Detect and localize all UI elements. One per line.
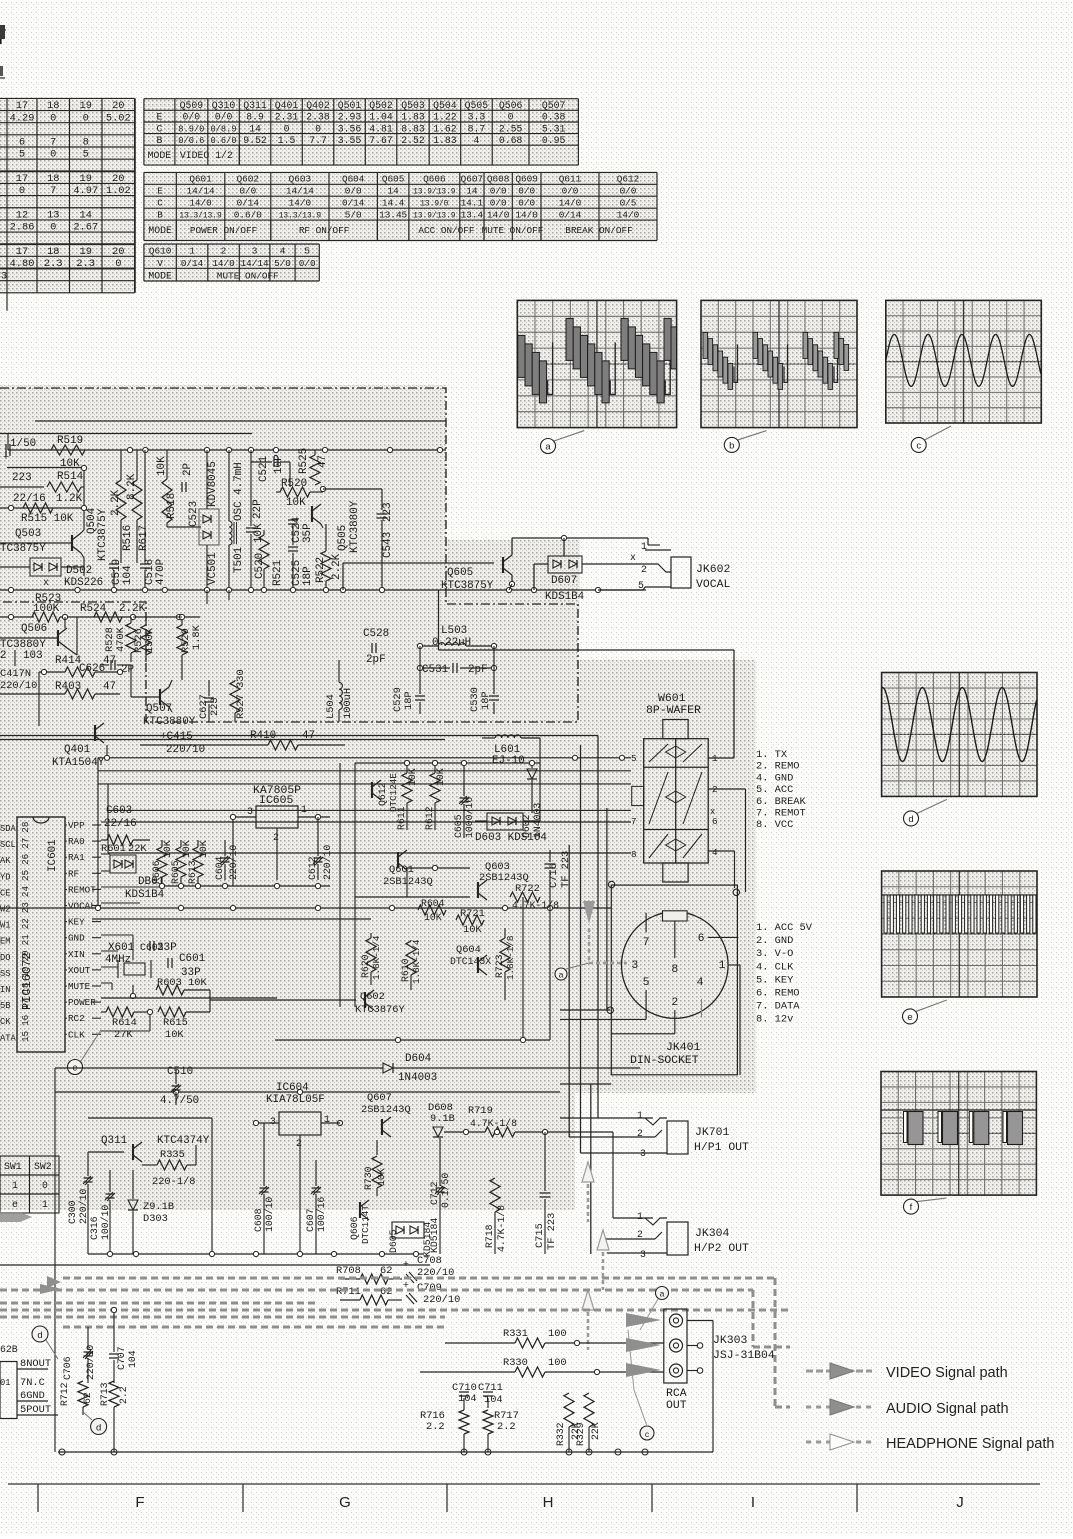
- svg-text:R713: R713: [99, 1382, 110, 1406]
- svg-text:22: 22: [20, 918, 31, 929]
- svg-text:R730: R730: [363, 1166, 374, 1190]
- wire Q605 collector to D607: [511, 538, 513, 544]
- svg-text:7: 7: [50, 137, 56, 149]
- svg-text:4.7K-1/8: 4.7K-1/8: [470, 1118, 517, 1129]
- svg-text:104: 104: [127, 1350, 138, 1368]
- svg-text:Q602: Q602: [360, 991, 385, 1003]
- svg-text:35P: 35P: [302, 523, 314, 543]
- RCA wires: [687, 1320, 713, 1322]
- svg-text:DTC143X: DTC143X: [450, 956, 491, 967]
- wire h1092 box line: [55, 1091, 560, 1093]
- svg-text:2.52: 2.52: [401, 135, 425, 146]
- svg-text:8: 8: [671, 963, 678, 976]
- svg-text:47: 47: [317, 455, 329, 468]
- svg-text:62: 62: [380, 1265, 392, 1277]
- resistor R514: [0, 486, 44, 488]
- capacitor C1/50 (page edge): [5, 444, 7, 456]
- svg-text:R711: R711: [336, 1286, 361, 1298]
- wire R520 to C543: [323, 488, 382, 490]
- svg-text:100: 100: [548, 1357, 567, 1369]
- signal path arrow into DIN: [583, 901, 595, 924]
- svg-text:IC601: IC601: [47, 839, 59, 872]
- svg-text:7N.C: 7N.C: [20, 1377, 45, 1389]
- svg-text:TC3875Y: TC3875Y: [0, 543, 46, 555]
- svg-text:13.9/13.9: 13.9/13.9: [413, 188, 456, 197]
- IC IC601 PIC16C72: [17, 817, 65, 1052]
- transistor Q603 2SB1243Q: [477, 882, 479, 898]
- resistor R515: [23, 503, 53, 513]
- svg-text:x: x: [43, 577, 49, 588]
- svg-text:0/0: 0/0: [490, 198, 507, 209]
- svg-text:R604: R604: [421, 898, 445, 909]
- wire harness h739: [0, 739, 445, 741]
- wire R523 junction riser: [64, 617, 66, 628]
- svg-text:R332: R332: [555, 1422, 566, 1446]
- svg-text:E: E: [157, 186, 163, 197]
- svg-text:C708: C708: [417, 1255, 442, 1267]
- capacitor C520 22P: [246, 527, 256, 529]
- svg-text:5/0: 5/0: [345, 210, 362, 221]
- svg-text:Q601: Q601: [389, 864, 414, 876]
- inductor L503 0.22uH: [438, 643, 465, 646]
- svg-text:C604: C604: [214, 856, 225, 880]
- svg-text:1: 1: [42, 1199, 48, 1210]
- svg-text:2: 2: [641, 564, 647, 575]
- svg-text:DTC124E: DTC124E: [388, 773, 399, 812]
- svg-text:I: I: [751, 1494, 755, 1511]
- svg-text:Q507: Q507: [542, 100, 566, 111]
- svg-text:IC605: IC605: [259, 794, 293, 807]
- transistor Q507: [159, 689, 161, 705]
- svg-text:10K: 10K: [60, 458, 80, 470]
- svg-text:R603 10K: R603 10K: [157, 977, 208, 989]
- svg-text:14/14: 14/14: [187, 186, 215, 197]
- svg-text:14: 14: [80, 209, 92, 221]
- inductor T501 OSC 4.7mH: [229, 521, 232, 545]
- transistor Q503: [71, 535, 73, 551]
- scope label circle (a): [541, 431, 585, 454]
- svg-text:17: 17: [16, 173, 28, 185]
- svg-text:VIDEO Signal path: VIDEO Signal path: [886, 1365, 1008, 1381]
- diode D608 9.1B: [433, 1127, 443, 1137]
- svg-text:d: d: [96, 1423, 101, 1434]
- svg-text:SDA: SDA: [0, 824, 16, 834]
- capacitor C519 104: [109, 563, 119, 565]
- svg-text:R615: R615: [163, 1017, 188, 1029]
- label circle a (din): [555, 968, 567, 980]
- svg-text:Q505: Q505: [465, 100, 489, 111]
- svg-text:Q612: Q612: [617, 174, 639, 185]
- scope label circle (c): [911, 426, 951, 452]
- svg-text:Q503: Q503: [15, 528, 41, 540]
- transistor Q604 DTC143X: [477, 957, 479, 973]
- svg-text:2pF: 2pF: [468, 664, 488, 676]
- svg-text:2.2K: 2.2K: [110, 489, 122, 516]
- jack JK304 H/P2 OUT: [667, 1222, 688, 1255]
- resistor R614 27K: [106, 1007, 134, 1017]
- svg-text:20: 20: [112, 246, 124, 258]
- wire Q311 top net: [88, 1117, 212, 1119]
- svg-text:Q401: Q401: [64, 744, 91, 756]
- resistor R528 470K: [126, 623, 136, 653]
- svg-text:8.9: 8.9: [246, 112, 264, 123]
- RCA jack JK303: [664, 1309, 687, 1383]
- svg-text:AK: AK: [0, 856, 11, 866]
- svg-text:150K: 150K: [144, 627, 156, 653]
- svg-text:KTC3880Y: KTC3880Y: [143, 716, 196, 728]
- svg-text:R718: R718: [484, 1224, 495, 1248]
- svg-text:17: 17: [16, 100, 28, 112]
- svg-text:R613: R613: [187, 860, 198, 884]
- svg-text:2.2K: 2.2K: [331, 553, 343, 580]
- diode pair D603 KDS164: [487, 813, 523, 830]
- resistor R615 10K: [158, 1007, 186, 1017]
- svg-text:220/10: 220/10: [78, 1189, 89, 1224]
- svg-text:0.68: 0.68: [499, 135, 523, 146]
- RF shield dashed boundary: [0, 388, 578, 722]
- svg-text:Q311: Q311: [243, 100, 267, 111]
- svg-text:SS: SS: [0, 969, 10, 979]
- transistor Q506: [57, 630, 59, 646]
- svg-text:Q506: Q506: [21, 623, 47, 635]
- svg-text:62: 62: [380, 1286, 392, 1298]
- svg-text:10K: 10K: [253, 523, 265, 543]
- svg-text:6: 6: [19, 137, 25, 149]
- svg-text:14/14: 14/14: [286, 186, 314, 197]
- svg-text:f: f: [910, 1202, 913, 1213]
- svg-text:VOCAL: VOCAL: [696, 578, 730, 591]
- svg-text:100/10: 100/10: [100, 1205, 111, 1240]
- svg-text:KD5184: KD5184: [429, 1218, 440, 1253]
- svg-text:RA1: RA1: [68, 852, 85, 863]
- svg-text:T501: T501: [233, 546, 245, 573]
- svg-text:D303: D303: [143, 1213, 168, 1225]
- svg-text:C603: C603: [106, 805, 132, 817]
- svg-text:x: x: [630, 552, 636, 563]
- svg-text:0/14: 0/14: [559, 210, 582, 221]
- svg-text:RC2: RC2: [68, 1013, 85, 1024]
- video signal path rails: [23, 1276, 61, 1288]
- svg-text:14/0: 14/0: [515, 210, 538, 221]
- svg-text:KTC3880Y: KTC3880Y: [349, 500, 361, 553]
- svg-text:4.29: 4.29: [10, 112, 35, 124]
- svg-text:Q502: Q502: [369, 100, 393, 111]
- svg-text:1/50: 1/50: [10, 438, 36, 450]
- W601 key notch: [632, 786, 644, 805]
- svg-text:+: +: [403, 1259, 409, 1270]
- svg-text:KTC3875Y: KTC3875Y: [97, 508, 109, 561]
- svg-text:EJ-10: EJ-10: [492, 755, 525, 767]
- svg-text:YD: YD: [0, 872, 10, 882]
- svg-text:VPP: VPP: [68, 820, 85, 831]
- wire long rail h1265: [0, 1264, 430, 1266]
- svg-text:8. 12v: 8. 12v: [756, 1014, 793, 1026]
- capacitor C543 223: [377, 513, 388, 515]
- page corner specks: [0, 25, 5, 39]
- svg-text:470K: 470K: [115, 626, 127, 652]
- svg-text:22P: 22P: [252, 499, 264, 519]
- svg-text:0/14: 0/14: [342, 198, 365, 209]
- svg-text:1. TX: 1. TX: [756, 749, 788, 761]
- svg-text:17: 17: [20, 999, 31, 1010]
- svg-text:10K: 10K: [165, 1029, 184, 1041]
- capacitor C626 2P: [110, 660, 112, 670]
- svg-text:220/10: 220/10: [85, 1345, 96, 1380]
- svg-text:10K: 10K: [407, 768, 418, 786]
- svg-text:2.3: 2.3: [76, 258, 95, 270]
- svg-text:13.9/0: 13.9/0: [420, 200, 449, 209]
- svg-text:Q606: Q606: [423, 174, 446, 185]
- svg-text:C716: C716: [548, 863, 560, 888]
- transistor voltage table 2: [144, 172, 657, 240]
- capacitor C712 0.1/50: [436, 1187, 445, 1189]
- resistor R529 1.8K: [177, 625, 187, 655]
- svg-text:10K: 10K: [181, 840, 192, 858]
- svg-text:2: 2: [637, 1229, 643, 1240]
- svg-text:3.3: 3.3: [468, 112, 486, 123]
- diode pair D605 KD5184: [392, 1222, 424, 1238]
- svg-text:14: 14: [249, 123, 261, 134]
- svg-text:R516: R516: [122, 525, 134, 551]
- IC605 KA7805P: [256, 806, 298, 828]
- resistor R332 22K: [564, 1393, 574, 1427]
- wire h1000 segment: [210, 999, 356, 1001]
- resistor R620 1.8K-1/4: [366, 938, 376, 972]
- svg-text:VC501: VC501: [207, 552, 219, 585]
- DIN pin 8: [674, 921, 676, 958]
- svg-text:G: G: [339, 1494, 351, 1511]
- transistor Q602 KTC3876Y: [364, 992, 366, 1008]
- resistor R717 2.2: [483, 1410, 493, 1434]
- svg-text:19: 19: [20, 966, 31, 977]
- svg-text:ACC ON/OFF: ACC ON/OFF: [418, 225, 474, 236]
- svg-text:L504: L504: [325, 694, 337, 719]
- svg-text:C417N: C417N: [0, 668, 31, 680]
- svg-text:C712: C712: [429, 1181, 440, 1205]
- svg-text:10K: 10K: [286, 497, 306, 509]
- svg-text:CK: CK: [0, 1017, 11, 1027]
- svg-text:R514: R514: [57, 471, 83, 483]
- svg-text:D502: D502: [66, 565, 92, 577]
- svg-text:18P: 18P: [403, 691, 415, 710]
- varactor VC501 KDV8045: [199, 509, 219, 545]
- svg-text:C605: C605: [453, 814, 464, 838]
- oscilloscope screen (b): [701, 300, 857, 427]
- svg-text:0: 0: [50, 222, 56, 234]
- svg-text:7: 7: [631, 816, 637, 827]
- svg-text:Z9.1B: Z9.1B: [143, 1201, 174, 1213]
- svg-text:6. BREAK: 6. BREAK: [756, 796, 807, 808]
- IC fragment page edge: [0, 1362, 17, 1419]
- switch table SW1 SW2: [0, 1156, 59, 1213]
- svg-text:Q602: Q602: [237, 174, 259, 185]
- resistor R711 62: [360, 1295, 388, 1305]
- wire Q601 row h868: [407, 867, 470, 869]
- svg-text:R403: R403: [55, 681, 81, 693]
- svg-text:6. REMO: 6. REMO: [756, 988, 800, 1000]
- diode D602 1N4003: [527, 769, 537, 779]
- svg-text:4: 4: [712, 847, 718, 858]
- svg-text:7: 7: [643, 936, 650, 949]
- svg-text:8: 8: [631, 849, 637, 860]
- svg-text:13.3/13.9: 13.3/13.9: [279, 212, 322, 221]
- svg-text:Q507: Q507: [146, 703, 172, 715]
- svg-text:220-1/8: 220-1/8: [152, 1176, 196, 1188]
- svg-text:0.95: 0.95: [542, 135, 566, 146]
- svg-text:4.7/50: 4.7/50: [160, 1095, 199, 1107]
- svg-text:22K: 22K: [128, 843, 147, 855]
- svg-text:D604: D604: [405, 1053, 431, 1065]
- svg-text:SW1: SW1: [4, 1161, 22, 1172]
- oscilloscope screen (a): [517, 300, 676, 427]
- resistor R519: [51, 445, 85, 455]
- svg-text:R331: R331: [503, 1328, 528, 1340]
- svg-text:Q605: Q605: [382, 174, 405, 185]
- svg-text:KTC3875Y: KTC3875Y: [441, 580, 494, 592]
- svg-text:5POUT: 5POUT: [20, 1404, 51, 1416]
- schematic shaded zone: [0, 385, 446, 612]
- svg-text:9.1B: 9.1B: [430, 1113, 455, 1125]
- svg-text:D603 KDS164: D603 KDS164: [475, 832, 547, 844]
- svg-text:JK701: JK701: [695, 1126, 729, 1139]
- svg-text:1.5: 1.5: [278, 135, 296, 146]
- svg-text:Q608: Q608: [487, 174, 509, 185]
- svg-text:X601: X601: [108, 942, 135, 954]
- svg-text:100: 100: [548, 1328, 567, 1340]
- svg-text:22/16: 22/16: [13, 493, 46, 505]
- resistor R525 47: [310, 455, 320, 485]
- svg-text:C626: C626: [79, 663, 105, 675]
- svg-text:8.7: 8.7: [468, 123, 486, 134]
- svg-text:R515 10K: R515 10K: [21, 513, 74, 525]
- svg-text:0: 0: [19, 185, 25, 197]
- svg-text:27K: 27K: [114, 1029, 133, 1041]
- label circle a2: [656, 1287, 669, 1300]
- svg-text:R712: R712: [59, 1382, 70, 1406]
- wire second rail: [0, 433, 252, 435]
- svg-text:1000/16: 1000/16: [464, 797, 475, 838]
- svg-text:14/0: 14/0: [617, 210, 640, 221]
- svg-text:CE: CE: [0, 888, 10, 898]
- svg-text:13.45: 13.45: [379, 210, 407, 221]
- svg-text:R521: R521: [272, 559, 284, 586]
- svg-text:2.3: 2.3: [44, 258, 63, 270]
- svg-text:2P: 2P: [121, 664, 134, 676]
- svg-text:27: 27: [20, 838, 31, 849]
- svg-text:C711: C711: [478, 1382, 503, 1394]
- svg-text:W2: W2: [0, 905, 10, 915]
- svg-text:13: 13: [47, 209, 59, 221]
- svg-text:13.4: 13.4: [461, 210, 484, 221]
- svg-text:KTC3876Y: KTC3876Y: [355, 1004, 406, 1016]
- svg-text:5.31: 5.31: [542, 123, 566, 134]
- waveform (d) sine: [882, 688, 1037, 762]
- svg-text:0.6/0: 0.6/0: [210, 136, 236, 146]
- resistor R605 10K: [176, 847, 186, 877]
- resistor R518 10K: [162, 479, 172, 523]
- svg-text:R620: R620: [360, 954, 371, 978]
- svg-text:5: 5: [19, 149, 25, 161]
- svg-text:8P-WAFER: 8P-WAFER: [646, 704, 701, 717]
- svg-text:H/P1 OUT: H/P1 OUT: [694, 1141, 749, 1154]
- capacitor C601 33P: [167, 958, 169, 968]
- capacitor C518 470P: [140, 563, 150, 565]
- svg-text:R330: R330: [503, 1357, 528, 1369]
- svg-text:C715: C715: [534, 1223, 546, 1248]
- wire long node h908: [0, 907, 611, 909]
- svg-text:R527 330: R527 330: [235, 669, 247, 719]
- svg-text:Q501: Q501: [338, 100, 362, 111]
- capacitor C524 35P: [288, 519, 298, 521]
- svg-text:R414: R414: [55, 655, 81, 667]
- capacitor C529 18P: [415, 695, 425, 697]
- svg-text:e: e: [907, 1012, 912, 1023]
- wire Q612 row: [355, 762, 540, 764]
- wire loop to W601 pin1: [438, 590, 440, 650]
- svg-text:C709: C709: [417, 1282, 442, 1294]
- svg-text:0: 0: [508, 112, 514, 123]
- svg-text:Q606: Q606: [349, 1216, 360, 1240]
- svg-text:10K: 10K: [162, 840, 173, 858]
- svg-text:L503: L503: [441, 625, 467, 637]
- svg-text:4: 4: [474, 135, 480, 146]
- svg-text:5. KEY: 5. KEY: [756, 974, 794, 986]
- svg-text:4. CLK: 4. CLK: [756, 961, 794, 973]
- svg-text:7.7: 7.7: [309, 135, 327, 146]
- svg-text:1.8K-1/4: 1.8K-1/4: [411, 939, 422, 984]
- wires to jacks vertical: [612, 1132, 614, 1218]
- svg-text:R606: R606: [151, 860, 162, 884]
- svg-text:220/10: 220/10: [166, 744, 205, 756]
- svg-text:+C415: +C415: [160, 731, 193, 743]
- svg-text:0/0: 0/0: [215, 112, 233, 123]
- svg-text:KDS1B4: KDS1B4: [545, 591, 584, 603]
- svg-text:C602: C602: [140, 942, 164, 953]
- svg-text:MODE: MODE: [148, 225, 172, 236]
- resistor R517 8.2K: [132, 480, 142, 520]
- svg-text:3. V-O: 3. V-O: [756, 948, 793, 960]
- svg-text:OUT: OUT: [666, 1399, 687, 1412]
- svg-text:KDV8045: KDV8045: [207, 461, 219, 507]
- svg-text:14: 14: [388, 186, 400, 197]
- transistor Q607 2SB1243Q: [381, 1119, 383, 1135]
- svg-text:0: 0: [50, 149, 56, 161]
- resistor R331 100: [515, 1338, 545, 1348]
- svg-text:C607: C607: [305, 1208, 316, 1232]
- diode pair D502 KDS226: [30, 558, 61, 576]
- svg-text:SW2: SW2: [34, 1161, 52, 1172]
- svg-text:104: 104: [458, 1393, 477, 1405]
- svg-text:2: 2: [296, 1138, 302, 1149]
- svg-text:C: C: [156, 123, 162, 134]
- resistor R522 2.2K: [321, 551, 331, 581]
- svg-text:4: 4: [280, 246, 286, 257]
- svg-text:0: 0: [50, 112, 56, 124]
- svg-text:0: 0: [315, 123, 321, 134]
- capacitor C608 100/10: [260, 1187, 269, 1189]
- svg-text:R519: R519: [57, 435, 83, 447]
- junctions RF rail2: [41, 669, 46, 674]
- svg-text:5: 5: [631, 753, 637, 764]
- oscilloscope screen (f): [881, 1072, 1036, 1196]
- svg-text:20: 20: [20, 950, 31, 961]
- svg-text:d: d: [37, 1330, 42, 1341]
- label circle d: [32, 1326, 48, 1342]
- svg-text:10K: 10K: [198, 840, 209, 858]
- svg-text:KEY: KEY: [68, 917, 85, 928]
- resistor R329 22K: [584, 1393, 594, 1427]
- wire mid box top: [34, 758, 36, 1093]
